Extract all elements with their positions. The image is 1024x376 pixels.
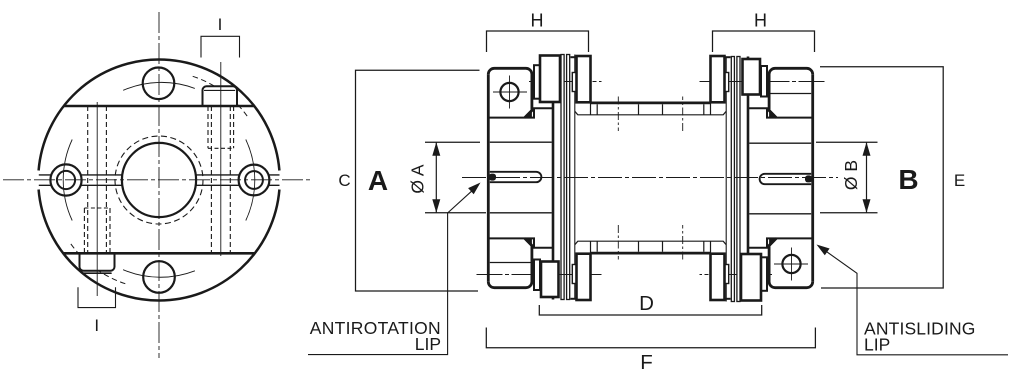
svg-text:LIP: LIP: [415, 334, 441, 354]
left clamp screw outer: [50, 164, 81, 195]
section main centerline: [462, 177, 838, 179]
hub A assembly: [477, 55, 651, 301]
horizontal centerline: [3, 179, 311, 181]
dimension H right bracket: [713, 31, 815, 52]
dimension I top bracket: [201, 36, 240, 57]
top-right lip inner line: [204, 89, 235, 91]
antisliding leader line: [820, 247, 1009, 355]
antisliding arrowhead: [817, 245, 830, 256]
hidden arc near top-right lip: [193, 76, 248, 116]
svg-text:I: I: [218, 15, 223, 34]
dim A arrowheads: [432, 142, 440, 213]
vertical centerline: [158, 12, 160, 358]
right hidden screw hole wide (counterbore): [208, 106, 234, 148]
left counterbore top tick: [84, 207, 110, 209]
bottom-left lip outer line: [84, 272, 112, 274]
left slit lines: [39, 175, 122, 185]
bolt circle arc at top hole: [123, 82, 195, 90]
dimension H left bracket: [487, 31, 589, 52]
left clamp screw inner: [57, 171, 75, 189]
svg-text:LIP: LIP: [864, 335, 890, 355]
bolt circle arc at right screw: [246, 140, 255, 221]
dim B arrowheads: [863, 142, 871, 213]
right clamp screw outer: [239, 165, 270, 196]
dim A line: [435, 142, 437, 213]
svg-text:B: B: [898, 164, 918, 195]
right clamp screw inner: [245, 171, 263, 189]
right counterbore bottom tick: [208, 147, 234, 149]
svg-text:A: A: [368, 165, 388, 196]
svg-text:E: E: [954, 171, 965, 190]
svg-text:D: D: [639, 292, 654, 315]
antirotation leader line: [308, 185, 479, 355]
dim B extension lines: [816, 142, 878, 213]
antirotation arrowhead: [468, 183, 480, 195]
dimension F bracket: [486, 328, 815, 348]
bottom bolt hole: [143, 261, 175, 293]
dim B line: [866, 142, 868, 213]
dimension D bracket: [539, 305, 761, 315]
svg-text:Ø B: Ø B: [841, 160, 861, 190]
bolt circle arc at left screw: [63, 140, 72, 221]
dimension C bracket: [356, 70, 480, 291]
svg-text:Ø A: Ø A: [408, 164, 428, 194]
top bolt hole: [143, 68, 175, 100]
outer circle upper arc: [39, 60, 280, 171]
svg-text:F: F: [640, 351, 653, 374]
svg-text:H: H: [531, 11, 544, 31]
right hidden screw hole narrow: [211, 106, 230, 253]
svg-text:H: H: [754, 11, 767, 31]
bottom-left lip block: [80, 253, 115, 271]
left screw hole centerline: [96, 102, 98, 296]
left hidden screw hole wide (counterbore): [84, 208, 110, 253]
right screw hole centerline: [220, 62, 222, 256]
svg-text:I: I: [94, 316, 99, 335]
bottom chord line: [63, 252, 255, 255]
right slit lines: [196, 175, 279, 185]
center bore: [122, 143, 196, 217]
dim A extension lines: [425, 142, 486, 213]
outer circle lower arc: [39, 190, 280, 301]
top chord line: [64, 105, 255, 108]
dimension I bottom bracket: [78, 287, 116, 307]
hub B assembly (180 deg rotated copy): [651, 56, 825, 302]
top-right lip block: [203, 86, 238, 106]
bolt circle arc at bottom hole: [123, 270, 195, 278]
hidden bore circle (dashed): [115, 136, 203, 224]
hidden arc near bottom-left lip: [71, 244, 126, 284]
svg-text:C: C: [338, 171, 350, 190]
dimension E bracket: [820, 67, 943, 288]
left hidden screw hole narrow: [88, 106, 107, 253]
